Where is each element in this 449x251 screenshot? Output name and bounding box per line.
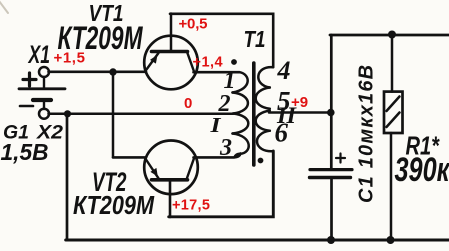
scan smudge top-left (0, 1, 8, 13)
wire +17,5 VT2 base to T1 pin6 (169, 151, 274, 217)
wire VT2 emitter (113, 156, 146, 159)
phase dot bottom (258, 158, 264, 164)
wire vertical to bottom rail (66, 114, 69, 239)
node +9 junction (327, 109, 335, 117)
svg-text:X2: X2 (36, 123, 64, 144)
svg-text:+0,5: +0,5 (179, 15, 208, 32)
svg-text:КТ209М: КТ209М (58, 20, 144, 56)
svg-text:С1 10мкх16В: С1 10мкх16В (356, 64, 378, 203)
svg-text:+9: +9 (291, 94, 308, 111)
terminal X2 (36, 109, 64, 144)
svg-text:КТ209М: КТ209М (73, 190, 155, 220)
winding I (primary) (233, 72, 248, 92)
node C1 bottom junction (327, 236, 335, 244)
wire top rail VT1 base to T1 pin4 (170, 14, 273, 67)
wire VT2 collector to winding pin3 (194, 154, 241, 158)
wire X1 rail (49, 71, 147, 74)
svg-text:+1,4: +1,4 (193, 55, 224, 71)
transistor VT1 (58, 0, 198, 89)
svg-text:I: I (209, 113, 221, 137)
svg-text:0: 0 (184, 95, 192, 112)
svg-text:+17,5: +17,5 (172, 198, 210, 214)
svg-text:X1: X1 (27, 41, 50, 69)
resistor R1 (384, 35, 449, 241)
svg-text:6: 6 (275, 118, 289, 148)
svg-text:4: 4 (277, 56, 291, 85)
wire VT1 collector to winding pin1 (194, 71, 240, 74)
terminal X1 (23, 41, 50, 86)
node R1 top junction (388, 31, 396, 39)
winding II (secondary) (258, 67, 273, 87)
transformer T1 (209, 26, 297, 165)
node R1 bottom junction (387, 236, 395, 244)
wire top right rail (330, 34, 449, 37)
node junction on X1 rail (109, 68, 116, 75)
wire C1 vertical (330, 35, 333, 168)
phase dot top (231, 59, 237, 65)
svg-text:3: 3 (219, 135, 232, 161)
svg-text:390к: 390к (395, 151, 449, 189)
wire pin5 to C1 node (269, 111, 331, 114)
capacitor C1 (310, 64, 378, 240)
wire X2 rail (0 V) (49, 112, 234, 115)
wire vertical to VT2 emitter (112, 72, 115, 157)
node junction on X2 rail (64, 110, 71, 117)
battery G1 (1, 77, 66, 165)
svg-text:Т1: Т1 (244, 26, 266, 52)
core (252, 63, 256, 165)
transistor VT2 (73, 141, 198, 221)
wire bottom rail (66, 239, 449, 242)
